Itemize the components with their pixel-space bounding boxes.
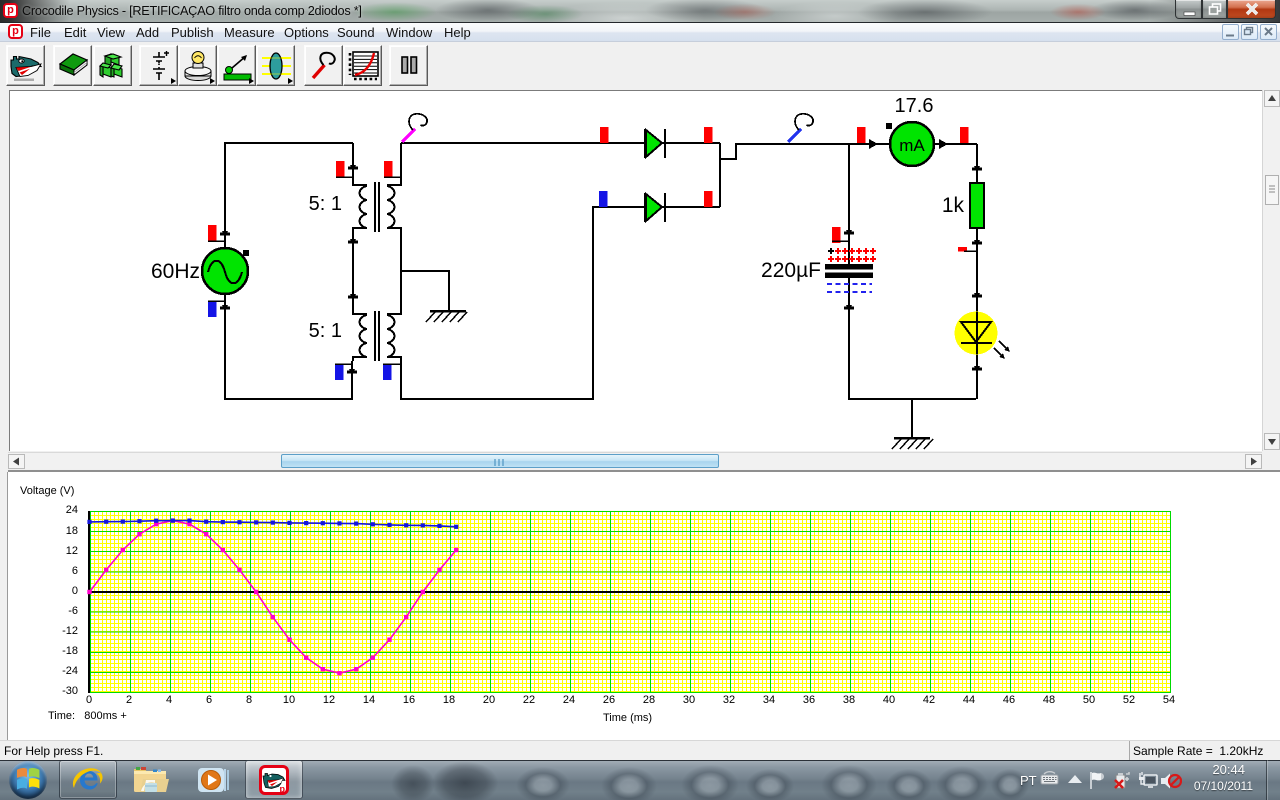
svg-text:5: 1: 5: 1 bbox=[309, 193, 342, 215]
svg-text:17.6: 17.6 bbox=[895, 95, 934, 117]
svg-text:220µF: 220µF bbox=[761, 259, 821, 282]
svg-text:5: 1: 5: 1 bbox=[309, 320, 342, 342]
svg-text:60Hz: 60Hz bbox=[151, 260, 200, 283]
svg-text:1k: 1k bbox=[942, 194, 965, 217]
svg-text:mA: mA bbox=[899, 136, 925, 155]
